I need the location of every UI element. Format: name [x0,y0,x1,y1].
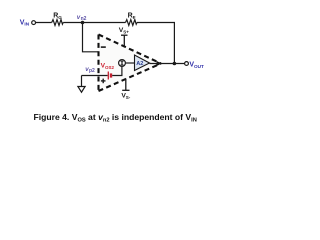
node VOUT label [189,61,204,69]
node VIN label [20,19,30,26]
node vn2 label [77,14,87,22]
junction vn2 [81,21,85,25]
svg-text:S+: S+ [123,29,129,34]
resistor RF [126,20,138,26]
op-amp macro-model dashed triangle [99,35,162,92]
current source I [119,60,126,67]
wire current source to A2 input [126,62,135,64]
resistor RG [52,20,64,26]
svg-text:OS2: OS2 [105,65,115,70]
svg-text:G: G [58,15,62,20]
junction output node [173,62,177,66]
svg-text:A2: A2 [136,61,143,67]
dashed triangle tip [157,61,162,66]
plus input sign [101,79,106,84]
wire RG to node vn2 to RF [63,22,125,24]
node vp2 label [85,66,95,74]
ground [78,87,85,93]
wire vn2 down and into op-amp minus input [83,23,122,60]
wire A2 output to VOUT [150,63,185,65]
resistor RF label [128,13,136,21]
supply VS+ label [119,27,129,35]
svg-text:Figure 4. VOS at vn2 is indepe: Figure 4. VOS at vn2 is independent of V… [34,112,197,124]
op-amp A2 [135,55,150,71]
wire vp2 down to ground [81,76,83,87]
wire vp2 to battery [82,75,108,77]
svg-text:F: F [133,15,136,20]
battery VOS2 [108,72,111,80]
terminal VOUT [185,62,189,66]
battery VOS2 label [101,62,115,70]
supply VS- rail [122,79,129,91]
svg-text:S-: S- [126,95,131,100]
svg-text:OUT: OUT [194,64,204,69]
minus input sign [101,46,106,48]
wire battery to current-source branch [112,66,122,75]
wire RF to top-right corner and down to output node [137,23,174,64]
svg-text:IN: IN [24,22,29,27]
svg-text:p2: p2 [89,68,95,74]
terminal VIN [32,21,36,25]
supply VS+ rail [121,35,128,47]
resistor RG label [53,13,62,21]
wire VIN to RG [36,22,52,24]
supply VS- label [121,93,130,101]
